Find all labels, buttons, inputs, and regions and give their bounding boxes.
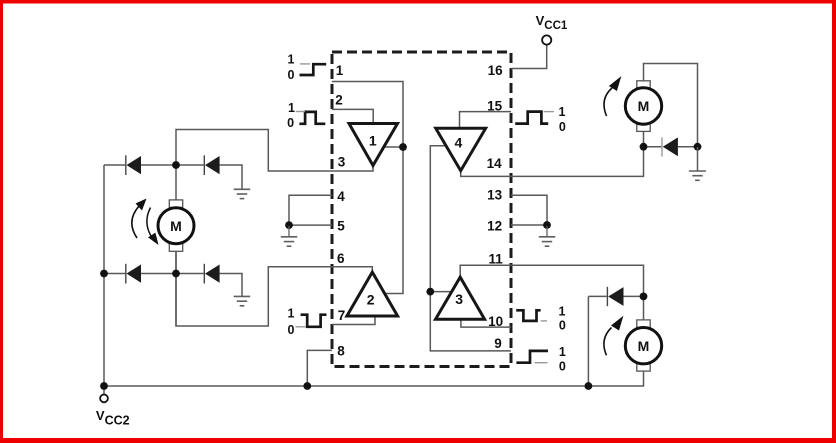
svg-text:14: 14 — [487, 156, 503, 171]
wire right bottom diode to motor node — [624, 295, 644, 297]
motor M2 right top — [625, 81, 661, 132]
wire pin1 to enable net of drivers 1 and 2 — [332, 82, 403, 294]
node bottom diode row left junction — [100, 270, 108, 278]
op-amp driver 2 — [347, 272, 398, 316]
node pin8 bus junction — [303, 382, 311, 390]
wire driver3 enable stub — [430, 291, 451, 293]
svg-text:5: 5 — [337, 219, 345, 234]
wire top diode row left segment — [104, 164, 125, 166]
svg-text:3: 3 — [455, 291, 463, 307]
svg-text:0: 0 — [288, 68, 295, 82]
diode D3 — [126, 264, 141, 284]
svg-text:0: 0 — [559, 360, 566, 374]
node right bottom motor top junction — [640, 293, 648, 301]
svg-text:4: 4 — [337, 189, 345, 204]
node bottom diode row motor junction — [172, 270, 180, 278]
wire right top motor loop — [644, 64, 698, 147]
wire bottom diode row middle segment — [141, 273, 204, 275]
IC U1 dashed package outline — [332, 52, 511, 367]
diode D2 — [204, 155, 219, 175]
svg-text:M: M — [638, 338, 650, 354]
svg-text:7: 7 — [338, 308, 346, 323]
svg-text:1: 1 — [336, 63, 344, 78]
svg-text:12: 12 — [487, 218, 502, 233]
svg-text:1: 1 — [288, 53, 295, 67]
wire top diode D2 to ground — [220, 165, 242, 189]
wire left supply bus vertical — [103, 165, 105, 386]
svg-text:0: 0 — [559, 319, 566, 333]
motor M3 right bottom — [625, 320, 661, 371]
wire left motor bottom lead — [175, 251, 177, 326]
wire right top diode left segment — [644, 146, 662, 148]
waveform input pin7 (low pulse) — [288, 307, 327, 337]
node right top motor bottom junction — [640, 143, 648, 151]
wire pin9 to enable net of drivers 3 and 4 — [430, 146, 511, 351]
svg-text:0: 0 — [288, 323, 295, 337]
wire VCC2 bottom bus — [104, 371, 644, 386]
svg-text:2: 2 — [367, 292, 375, 308]
svg-text:M: M — [170, 218, 182, 234]
wire left motor top lead — [175, 165, 177, 200]
svg-text:9: 9 — [494, 336, 502, 351]
wire top diode row middle segment — [141, 164, 204, 166]
diode D5 right top — [662, 137, 678, 156]
wire right top diode right segment — [678, 146, 698, 148]
node right bottom bus junction — [585, 382, 593, 390]
wire bottom diode row left segment — [104, 273, 125, 275]
op-amp driver 4 — [436, 128, 486, 171]
node pin1 enable junction — [399, 143, 407, 151]
wire pin4 to pin5 tie — [289, 195, 332, 225]
svg-text:3: 3 — [338, 155, 346, 170]
svg-text:6: 6 — [337, 251, 345, 266]
node pin9 enable junction — [426, 288, 434, 296]
ground G4 pins 13-12 — [539, 226, 556, 246]
wire driver1 enable stub — [384, 146, 403, 148]
diode D1 — [126, 155, 141, 175]
wire pin10 to driver3 input — [461, 319, 511, 327]
svg-text:0: 0 — [559, 120, 566, 134]
wire pin16 to VCC1 terminal — [511, 45, 547, 69]
ground G5 right top motor — [689, 147, 706, 180]
svg-text:16: 16 — [488, 63, 504, 78]
ground G3 pins 4-5 — [281, 226, 298, 246]
wire bottom diode D4 to ground — [220, 274, 242, 297]
rotation arrow right top motor — [604, 76, 621, 116]
svg-text:8: 8 — [337, 343, 345, 358]
svg-text:1: 1 — [288, 101, 295, 115]
wire pin7 to driver2 input — [332, 316, 375, 325]
ground G1 top left — [234, 189, 251, 198]
wire pin8 to VCC2 bus — [307, 350, 332, 386]
waveform input pin9 (rising step) — [516, 345, 565, 374]
svg-text:11: 11 — [488, 251, 503, 266]
wire pin14 driver4 output to right top motor — [461, 132, 644, 177]
svg-text:13: 13 — [487, 188, 503, 203]
rotation arrow right bottom motor — [604, 316, 624, 356]
waveform input pin2 (high pulse) — [287, 101, 325, 130]
wire pin6 driver2 output to left motor bottom — [176, 251, 372, 326]
node right top diode cathode junction — [694, 143, 702, 151]
svg-text:1: 1 — [559, 345, 566, 359]
node top diode row junction — [172, 161, 180, 169]
diode D6 right bottom — [607, 287, 623, 306]
ground G2 bottom left — [234, 296, 251, 305]
waveform input pin10 (low pulse) — [516, 304, 566, 332]
svg-text:1: 1 — [288, 307, 295, 321]
wire right bottom branch vertical — [587, 296, 589, 386]
svg-text:10: 10 — [488, 314, 503, 329]
svg-text:1: 1 — [559, 105, 566, 119]
diode D4 — [204, 264, 219, 284]
svg-text:2: 2 — [335, 93, 343, 108]
op-amp driver 3 — [436, 277, 485, 319]
wire pin3 driver1 output to left motor top — [176, 130, 373, 172]
wire pin11 driver3 output to right bottom motor — [460, 265, 643, 320]
waveform input pin1 (rising step) — [288, 53, 327, 83]
svg-text:M: M — [638, 98, 650, 114]
node pins 13-12 junction — [543, 221, 551, 229]
wire pin13 to pin12 tie — [511, 195, 547, 225]
wire pin2 to driver1 input — [332, 109, 373, 123]
wire VCC2 terminal stub — [103, 386, 105, 395]
wire right bottom freewheel branch — [588, 295, 606, 297]
rotation arrow left motor (bidirectional) — [132, 199, 159, 246]
node pins 4-5 junction — [285, 221, 293, 229]
op-amp driver 1 — [349, 124, 398, 166]
terminal VCC1 — [542, 35, 551, 44]
motor M1 left — [158, 200, 194, 251]
svg-text:4: 4 — [455, 135, 463, 151]
svg-text:15: 15 — [487, 98, 503, 113]
svg-text:1: 1 — [369, 133, 377, 149]
svg-text:0: 0 — [287, 116, 294, 130]
svg-text:1: 1 — [559, 304, 566, 318]
wire pin15 to driver4 input — [460, 112, 512, 129]
node VCC2 terminal junction — [100, 382, 108, 390]
waveform input pin15 (high pulse) — [515, 105, 566, 134]
terminal VCC2 — [100, 395, 108, 403]
